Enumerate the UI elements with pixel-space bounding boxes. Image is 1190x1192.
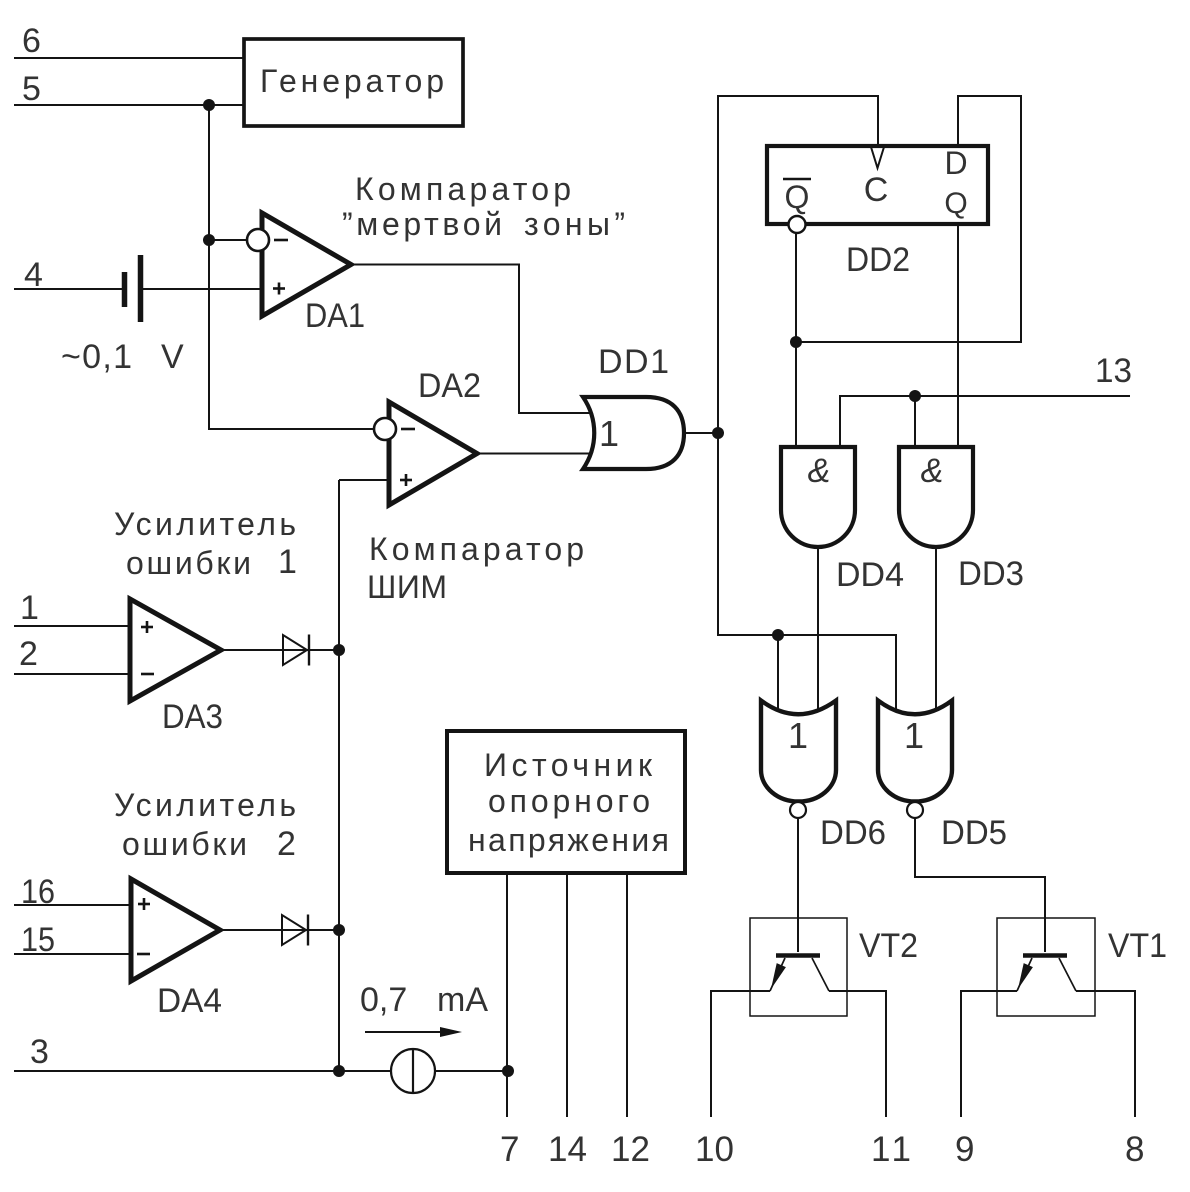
wire Q output down to DD3 input xyxy=(957,224,959,449)
op-amp DA2 (PWM comparator) xyxy=(374,367,481,505)
svg-text:DD2: DD2 xyxy=(846,241,910,279)
svg-text:Q: Q xyxy=(944,187,967,220)
svg-text:VT2: VT2 xyxy=(859,927,918,965)
wire pin 15 to DA4 xyxy=(14,953,131,955)
wire branch to DD6 left input xyxy=(777,635,779,714)
svg-text:DD6: DD6 xyxy=(820,814,886,852)
wire VT2 emitter to pin 10 xyxy=(711,991,770,1117)
D flip-flop DD2 xyxy=(767,145,988,279)
svg-text:напряжения: напряжения xyxy=(468,822,669,858)
svg-text:1: 1 xyxy=(904,715,924,756)
junction DA3 output on bus xyxy=(333,644,345,656)
reference voltage source block xyxy=(447,731,685,873)
wire DD1 output up to DD2 clock input xyxy=(718,96,878,433)
junction DD1 output node xyxy=(712,427,724,439)
svg-text:DD1: DD1 xyxy=(598,343,669,381)
battery GB (~0,1 V) xyxy=(125,255,141,322)
current direction arrow xyxy=(365,1027,462,1037)
op-amp DA4 (error amplifier 2) xyxy=(131,879,222,1020)
junction to DD6 left input xyxy=(772,629,784,641)
wire pin 3 to current source xyxy=(14,1070,392,1072)
svg-text:6: 6 xyxy=(22,22,41,60)
diode VD1 xyxy=(283,635,309,666)
svg-text:0,7: 0,7 xyxy=(360,981,407,1019)
svg-text:DA3: DA3 xyxy=(162,698,223,736)
wire DA2 output to DD1 lower input xyxy=(477,453,600,455)
junction Q-bar node xyxy=(790,336,802,348)
svg-text:3: 3 xyxy=(30,1033,49,1071)
junction bus on pin3 wire xyxy=(333,1065,345,1077)
svg-text:Усилитель: Усилитель xyxy=(114,506,296,542)
wire DD1 node down and across to DD6 and DD5 inputs xyxy=(718,433,896,714)
junction DA4 output on bus xyxy=(333,924,345,936)
svg-text:1: 1 xyxy=(278,543,297,581)
wire DA2 plus input from feedback bus xyxy=(339,479,389,481)
wire pin 6 to generator xyxy=(14,57,244,59)
junction on pin5 wire xyxy=(203,99,215,111)
svg-text:опорного: опорного xyxy=(488,783,650,819)
wire Q-bar feedback to D input xyxy=(796,96,1021,342)
svg-text:C: C xyxy=(864,171,889,209)
generator block xyxy=(244,39,463,126)
wire DD3 output to DD5 input xyxy=(935,547,937,714)
transistor VT1 xyxy=(997,918,1167,1016)
svg-text:Компаратор: Компаратор xyxy=(355,171,571,207)
svg-text:8: 8 xyxy=(1125,1130,1144,1169)
svg-text:DD4: DD4 xyxy=(836,556,904,594)
svg-text:&: & xyxy=(808,452,831,490)
label comparator dead zone xyxy=(342,171,625,242)
svg-text:14: 14 xyxy=(548,1130,587,1169)
svg-text:&: & xyxy=(921,452,944,490)
NOR gate DD5 xyxy=(878,701,1007,853)
svg-text:Компаратор: Компаратор xyxy=(369,531,584,567)
wire branch to DA1 inverting input xyxy=(209,239,248,241)
wire VT2 collector to pin 11 xyxy=(829,991,886,1117)
wire VT1 collector to pin 8 xyxy=(1076,991,1135,1117)
wire DD5 output to VT1 base xyxy=(915,817,1045,952)
svg-text:9: 9 xyxy=(955,1130,974,1169)
wire DD1 output xyxy=(684,432,718,434)
svg-text:DA4: DA4 xyxy=(157,982,222,1020)
svg-text:DD3: DD3 xyxy=(958,555,1024,593)
OR gate DD1 xyxy=(583,343,684,469)
wire feedback bus vertical xyxy=(338,480,340,1071)
wire battery to DA1 plus input xyxy=(143,288,262,290)
inverted output bubble on DD2 Q-bar xyxy=(789,216,806,233)
svg-text:DA2: DA2 xyxy=(418,367,481,405)
junction at DA1 inverting input branch xyxy=(203,234,215,246)
svg-text:Усилитель: Усилитель xyxy=(114,787,296,823)
wire DD4 output to DD6 input xyxy=(817,547,819,714)
op-amp DA3 (error amplifier 1) xyxy=(130,599,223,736)
wire pin 2 to DA3 xyxy=(14,673,130,675)
svg-text:1: 1 xyxy=(599,413,619,454)
op-amp DA1 (dead-zone comparator) xyxy=(247,213,365,335)
junction pin13 to DD3 branch xyxy=(909,390,921,402)
svg-text:~0,1: ~0,1 xyxy=(61,338,132,376)
NOR gate DD6 xyxy=(761,701,886,853)
wire current source to pin7 node xyxy=(434,1070,508,1072)
svg-text:2: 2 xyxy=(19,635,38,673)
svg-text:ШИМ: ШИМ xyxy=(367,569,447,605)
svg-text:5: 5 xyxy=(22,70,41,108)
wire DD6 output to VT2 base xyxy=(797,817,799,952)
svg-text:DA1: DA1 xyxy=(305,297,365,335)
wire reference source to pin 14 xyxy=(566,873,568,1117)
svg-text:10: 10 xyxy=(695,1130,734,1169)
wire DA3 output to bus xyxy=(221,649,339,651)
svg-text:VT1: VT1 xyxy=(1108,927,1167,965)
wire pin 1 to DA3 xyxy=(14,625,130,627)
svg-text:mA: mA xyxy=(437,981,488,1019)
svg-text:1: 1 xyxy=(788,715,808,756)
wire VT1 emitter to pin 9 xyxy=(961,991,1017,1117)
svg-text:2: 2 xyxy=(277,825,296,863)
value label ~0,1 V xyxy=(61,338,184,376)
wire vertical from pin5 junction down to DA2 inverting input xyxy=(209,105,377,429)
wire pin 4 to battery xyxy=(14,288,122,290)
svg-text:1: 1 xyxy=(20,589,39,627)
wire pin 16 to DA4 xyxy=(14,904,131,906)
svg-text:D: D xyxy=(944,145,967,181)
value label 0,7 mA xyxy=(360,981,488,1019)
wire reference source to pin 12 xyxy=(626,873,628,1117)
svg-text:Генератор: Генератор xyxy=(260,63,444,99)
current source G1 xyxy=(391,1049,435,1093)
AND gate DD3 xyxy=(899,447,1024,593)
svg-text:DD5: DD5 xyxy=(941,814,1007,852)
transistor VT2 xyxy=(750,918,918,1016)
wire DA1 output to DD1 upper input xyxy=(351,265,600,414)
svg-text:Q: Q xyxy=(785,179,810,215)
wire pin 5 to generator xyxy=(14,104,244,106)
wire DA4 output to bus xyxy=(220,929,339,931)
junction on pin 7 wire xyxy=(502,1065,514,1077)
diode VD2 xyxy=(282,915,308,946)
label comparator PWM xyxy=(367,531,584,605)
label error amplifier 1 xyxy=(114,506,297,581)
wire Q-bar down to DD4 input xyxy=(795,233,797,449)
wire pin 13 to DD4 input xyxy=(840,396,1130,449)
wire reference source to pin 7 xyxy=(506,873,508,1117)
svg-text:7: 7 xyxy=(500,1130,519,1169)
svg-text:12: 12 xyxy=(611,1130,650,1169)
svg-text:13: 13 xyxy=(1095,352,1132,390)
svg-text:V: V xyxy=(161,338,184,376)
AND gate DD4 xyxy=(781,447,904,594)
wire branch to DD3 left input xyxy=(914,396,916,449)
label error amplifier 2 xyxy=(114,787,296,863)
svg-text:11: 11 xyxy=(871,1130,911,1169)
